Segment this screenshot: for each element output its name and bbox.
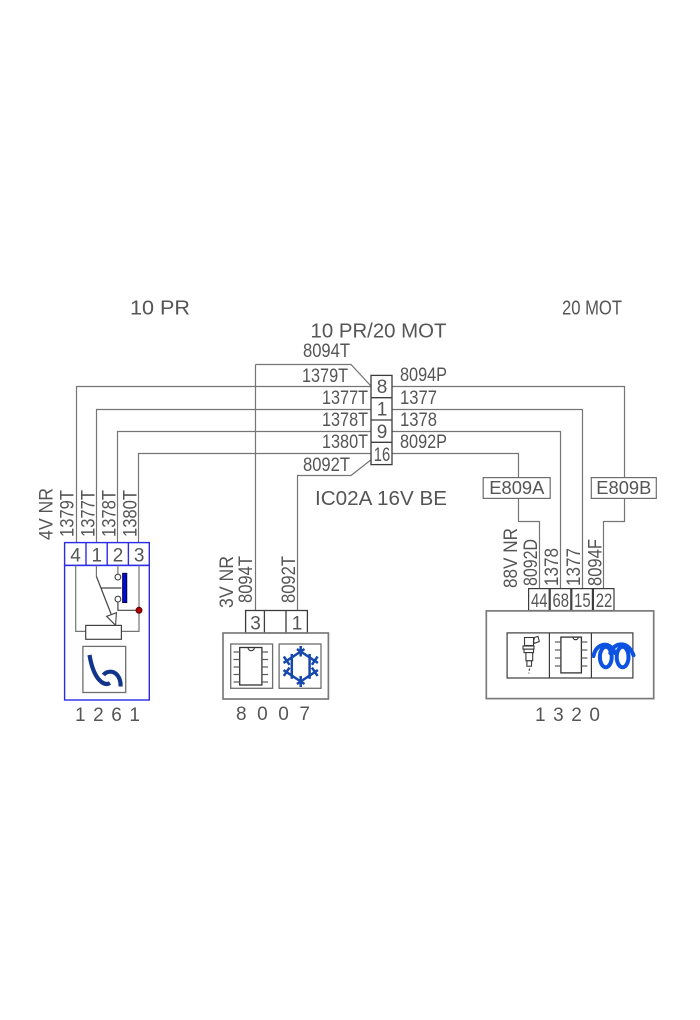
svg-text:88V NR: 88V NR (501, 528, 522, 588)
svg-text:1378: 1378 (542, 548, 563, 586)
svg-text:1379T: 1379T (302, 366, 348, 387)
svg-text:1380T: 1380T (322, 432, 368, 453)
svg-text:1380T: 1380T (121, 490, 142, 537)
svg-text:44: 44 (531, 591, 548, 612)
svg-text:1378T: 1378T (322, 410, 368, 431)
svg-text:9: 9 (377, 422, 388, 443)
svg-text:8: 8 (377, 377, 388, 398)
svg-text:2: 2 (113, 546, 124, 567)
svg-text:1378: 1378 (400, 410, 437, 431)
svg-text:8094F: 8094F (586, 539, 607, 586)
svg-text:15: 15 (574, 591, 591, 612)
svg-text:3: 3 (250, 614, 261, 635)
svg-text:1379T: 1379T (58, 490, 79, 537)
svg-text:10 PR: 10 PR (130, 298, 190, 320)
svg-text:1377: 1377 (400, 388, 437, 409)
svg-text:1: 1 (92, 546, 103, 567)
svg-text:1377T: 1377T (79, 490, 100, 537)
svg-text:3: 3 (134, 546, 145, 567)
svg-text:1: 1 (377, 400, 388, 421)
svg-text:1377: 1377 (564, 548, 585, 586)
svg-text:E809B: E809B (596, 478, 651, 498)
svg-text:8092T: 8092T (279, 556, 300, 603)
svg-text:1320: 1320 (535, 705, 600, 726)
svg-text:8092D: 8092D (521, 539, 542, 586)
svg-text:22: 22 (596, 591, 613, 612)
svg-text:10 PR/20 MOT: 10 PR/20 MOT (311, 321, 447, 343)
svg-text:E809A: E809A (489, 478, 544, 498)
svg-text:4V NR: 4V NR (37, 488, 58, 540)
svg-text:8094T: 8094T (236, 556, 257, 603)
svg-text:8092T: 8092T (303, 455, 350, 476)
svg-text:IC02A 16V BE: IC02A 16V BE (315, 488, 447, 510)
svg-text:8092P: 8092P (400, 432, 447, 453)
svg-text:4: 4 (70, 546, 81, 567)
svg-text:8094T: 8094T (303, 341, 350, 362)
svg-text:1377T: 1377T (322, 388, 368, 409)
svg-text:1261: 1261 (75, 705, 140, 726)
svg-text:3V NR: 3V NR (217, 556, 238, 608)
svg-text:20 MOT: 20 MOT (562, 298, 622, 320)
svg-text:8007: 8007 (236, 704, 310, 725)
svg-text:16: 16 (374, 445, 391, 466)
svg-text:1: 1 (292, 614, 303, 635)
svg-text:8094P: 8094P (400, 365, 447, 386)
svg-text:68: 68 (553, 591, 570, 612)
svg-text:1378T: 1378T (100, 490, 121, 537)
